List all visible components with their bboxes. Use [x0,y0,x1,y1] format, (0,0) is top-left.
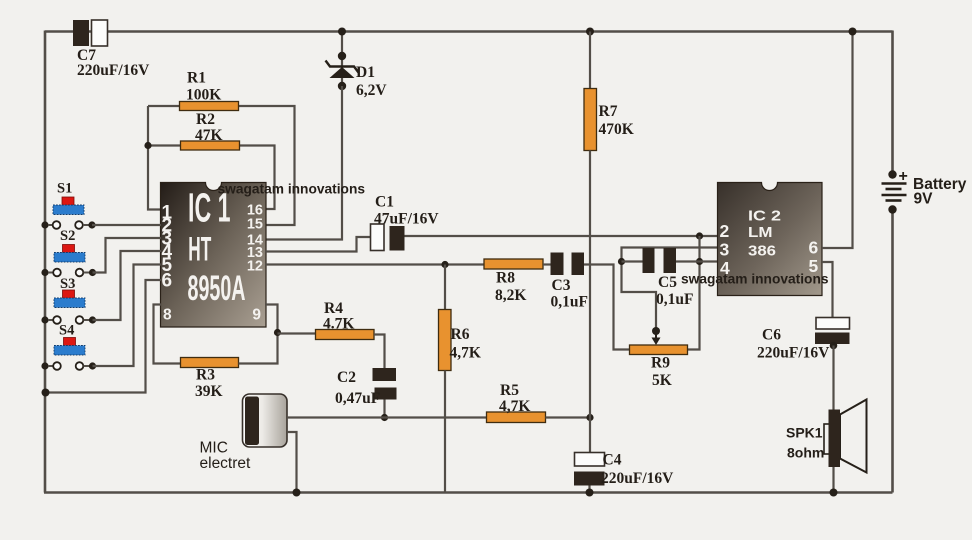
wire right rail upper (battery top) [891,31,894,175]
svg-text:386: 386 [748,242,776,259]
svg-text:C5: C5 [658,274,677,291]
wire IC2 pin 6 to top rail [822,32,853,249]
svg-text:R8: R8 [496,270,515,287]
svg-text:6: 6 [162,271,173,292]
node pin6 left rail junction [42,389,50,397]
resistor R8 [484,259,543,304]
wire R8 right to C3 [543,263,551,265]
wire S1 to pin 2 [92,224,161,226]
wire S2 to pin 3 [93,238,162,273]
resistor R5 [487,382,546,423]
svg-text:R4: R4 [324,300,343,317]
svg-text:electret: electret [200,455,252,472]
svg-text:C3: C3 [552,277,571,294]
wire bottom rail [44,491,893,494]
svg-text:D1: D1 [356,64,375,81]
node mic ground junction [293,489,301,497]
switch S4 [41,323,96,370]
svg-text:4.7K: 4.7K [323,316,354,333]
op-amp U2 IC2 LM386 [718,183,823,296]
microphone MIC electret [200,394,288,472]
wire IC2 pin 3 row [622,248,718,332]
node R6 top junction [441,261,448,268]
svg-text:swagatam innovations: swagatam innovations [681,271,829,287]
svg-text:4,7K: 4,7K [499,398,530,415]
svg-text:5K: 5K [652,372,672,389]
svg-text:2: 2 [720,221,730,241]
node pin4 row junction [696,258,703,265]
node D1 top rail junction [338,28,346,36]
node R3-R4 junction [274,329,281,336]
svg-text:47K: 47K [195,127,223,144]
wire top rail [45,30,893,33]
wire R1 right to pin 15 [239,106,295,225]
svg-text:8950A: 8950A [188,269,246,308]
node C6 bottom junction [830,342,838,350]
svg-text:12: 12 [247,259,263,275]
wire S4 to pin 5 [93,265,162,367]
svg-text:S1: S1 [57,181,72,197]
svg-text:LM: LM [748,224,773,241]
resistor R7 [584,89,634,151]
capacitor C5 [643,248,694,308]
node C5 left junction [618,258,625,265]
resistor R4 [316,300,375,340]
svg-text:R1: R1 [187,70,206,87]
svg-text:100K: 100K [186,87,221,104]
wire C2 bottom to mic wire [383,400,385,418]
svg-text:9V: 9V [914,191,934,208]
wire C6 to speaker [832,346,834,410]
wire R5 right stub [546,416,591,418]
svg-text:9: 9 [252,307,261,324]
op-amp U1 IC1 HT8950A [161,183,267,328]
wire right rail lower (battery bottom) [891,210,894,493]
wire C4 bottom stub [588,486,590,493]
svg-text:39K: 39K [195,383,223,400]
wire C1 to IC2 pin 2 [405,235,718,237]
resistor R6 [439,310,481,371]
wire D1 top stub [341,32,343,87]
switch S1 [41,181,95,229]
svg-text:0,1uF: 0,1uF [656,291,693,308]
wire R1-R2 left vertical to pin 1 [148,106,161,210]
wire C3 right to R9 left vertical [584,265,630,350]
svg-text:8,2K: 8,2K [495,287,526,304]
svg-text:4,7K: 4,7K [450,345,481,362]
svg-text:R6: R6 [451,326,470,343]
svg-text:15: 15 [247,217,263,233]
switch S2 [41,228,96,276]
node C4 ground junction [586,489,594,497]
wire pin 8 to R3 [154,305,181,364]
resistor R2 [181,111,240,150]
wire pin 13 to C1 [265,237,371,252]
wire R1 left stub [148,105,180,107]
svg-text:R2: R2 [196,111,215,128]
svg-text:SPK1: SPK1 [786,425,823,441]
svg-text:8: 8 [163,307,172,324]
svg-text:MIC: MIC [200,440,228,457]
wire junction down to pin4 row and R9 right [688,236,700,350]
capacitor C1 [371,194,440,251]
svg-text:C2: C2 [337,369,356,386]
svg-text:R5: R5 [500,382,519,399]
wire R7 bottom long vertical to C4 [589,151,591,453]
wire speaker to bottom rail [832,467,834,493]
wire R4 right to C2 [374,335,385,369]
node pin 6 top rail junction [849,28,857,36]
svg-text:IC 2: IC 2 [748,207,781,224]
speaker SPK1 8ohm [786,400,867,473]
wire R3 right to pin 9 [239,305,278,364]
wire C5 right to pin 4 [676,260,718,262]
wire R6 top stub [444,265,446,310]
capacitor C2 [335,368,397,407]
node C1 wire junction [696,232,703,239]
wire R2 right to pin 16 [240,146,275,210]
svg-text:470K: 470K [599,121,634,138]
svg-text:C1: C1 [375,194,394,211]
svg-text:HT: HT [188,231,211,269]
wire pin 12 row [265,263,484,265]
wire IC2 pin 5 to C6 [822,262,833,318]
node C2 junction [381,414,388,421]
svg-text:220uF/16V: 220uF/16V [77,62,150,79]
node speaker ground junction [830,489,838,497]
potentiometer R9 5K [630,327,688,389]
resistor R1 [180,70,239,111]
svg-text:0,1uF: 0,1uF [551,294,588,311]
svg-text:6,2V: 6,2V [356,82,387,99]
node R2 left junction [144,142,151,149]
wire junction to R4 [278,332,316,334]
wire left rail [44,31,47,493]
svg-text:R9: R9 [651,355,670,372]
node R5 right junction [586,414,593,421]
svg-text:3: 3 [720,239,730,259]
capacitor C4 [574,452,674,488]
svg-text:S4: S4 [59,323,74,339]
wire S3 to pin 4 [93,251,162,320]
switch S3 [41,276,96,324]
svg-text:R7: R7 [599,103,618,120]
diode D1 zener 6,2V [326,52,388,99]
resistor R3 [181,358,239,401]
svg-text:R3: R3 [196,367,215,384]
svg-text:220uF/16V: 220uF/16V [601,470,674,487]
svg-text:S2: S2 [60,228,75,244]
svg-text:C4: C4 [603,452,622,469]
svg-text:220uF/16V: 220uF/16V [757,345,830,362]
svg-text:C6: C6 [762,327,781,344]
capacitor C6 [757,318,850,362]
svg-text:8ohm: 8ohm [787,445,824,461]
wire R6 bottom to bottom rail [444,371,446,493]
wire junction to C5 left [622,260,643,262]
battery B1 9V [882,168,967,214]
wire pin 6 to left rail [45,280,161,393]
wire mic output row [287,416,487,418]
wire mic ground to bottom rail [287,432,297,493]
capacitor C3 [551,253,588,311]
svg-text:47uF/16V: 47uF/16V [374,211,439,228]
svg-text:swagatam innovations: swagatam innovations [218,181,366,197]
wire D1 bottom to pin 14 [265,86,342,240]
wire R2 left stub [148,144,181,146]
node R7 top rail junction [586,28,594,36]
svg-text:6: 6 [809,237,819,257]
svg-text:0,47uF: 0,47uF [335,390,380,407]
wire R7 top stub [589,32,591,89]
capacitor C7 [73,20,150,79]
